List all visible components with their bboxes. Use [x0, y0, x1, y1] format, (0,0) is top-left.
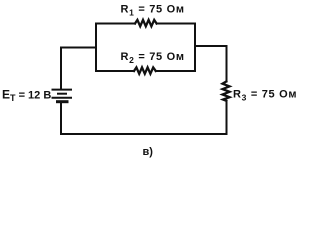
battery ET — [52, 90, 73, 102]
wire battery bottom — [60, 103, 62, 135]
wire battery top to node A — [61, 48, 96, 89]
wire top rail right of R1 — [157, 23, 195, 25]
wire right edge of parallel box — [194, 24, 196, 72]
battery plate short thick bottom — [56, 100, 69, 103]
resistor R1 — [135, 20, 157, 26]
resistor R2 — [134, 67, 156, 73]
battery plate short — [57, 93, 67, 95]
wire bottom rail right of R2 — [156, 70, 195, 72]
wire node B to R3 top — [195, 46, 227, 82]
wire R3 bottom to corner — [226, 101, 228, 134]
wire bottom rail left of R2 — [96, 70, 134, 72]
svg-text:R1 = 75 Ом: R1 = 75 Ом — [121, 3, 185, 17]
svg-text:R3 = 75 Ом: R3 = 75 Ом — [233, 88, 297, 102]
battery plate long top — [52, 89, 73, 91]
wire left edge of parallel box — [95, 24, 97, 71]
wire top rail left of R1 — [96, 23, 135, 25]
svg-text:в): в) — [143, 146, 154, 158]
resistor R3 — [223, 82, 230, 101]
svg-text:R2 = 75 Ом: R2 = 75 Ом — [121, 51, 185, 65]
battery plate long — [52, 97, 73, 99]
wire bottom return — [61, 133, 227, 135]
svg-text:ET = 12 В: ET = 12 В — [2, 87, 51, 103]
